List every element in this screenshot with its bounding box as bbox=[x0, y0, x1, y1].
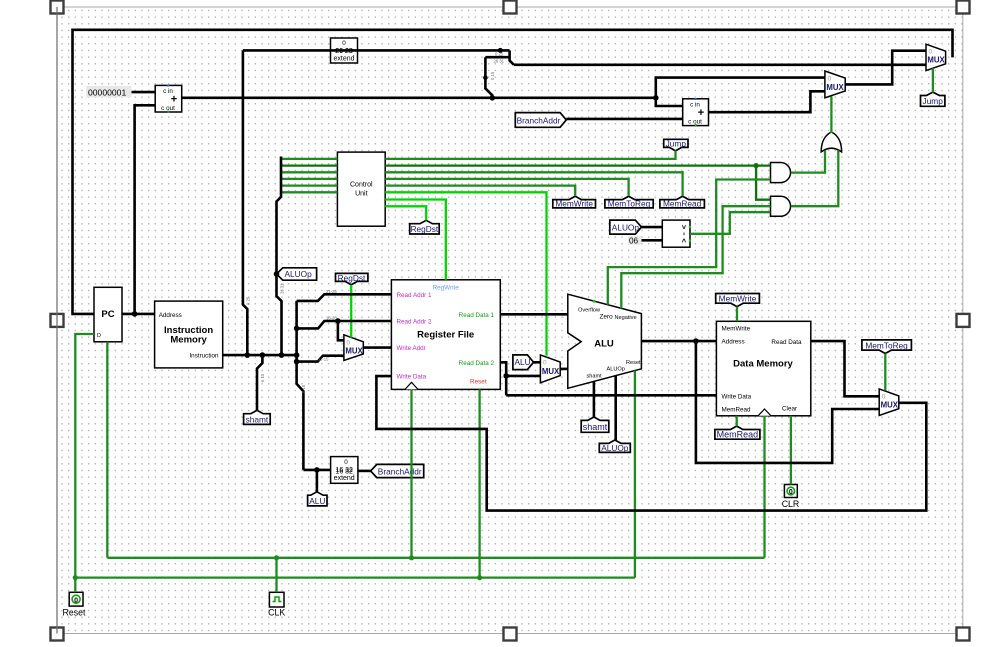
wire: Branch branch down to G2 input 1 bbox=[756, 166, 770, 200]
wire: PC out to instruction memory and A1 bbox=[122, 313, 155, 316]
svg-text:0: 0 bbox=[74, 597, 78, 604]
junction: ALUOp opcode tap bbox=[274, 271, 280, 277]
wire: control L6 (left of CU) bbox=[281, 191, 337, 193]
wire: G1 output to OR input 1 bbox=[791, 150, 825, 172]
svg-text:RegDst: RegDst bbox=[338, 273, 366, 283]
junction: splitter S1 node bbox=[498, 48, 503, 53]
wire: PC value riser to A1 bbox=[135, 105, 156, 314]
adder A1 (PC+1) bbox=[155, 85, 182, 113]
svg-text:MUX: MUX bbox=[826, 83, 844, 92]
junction: reset net at register file bbox=[477, 575, 482, 580]
wire: RegDst net to tunnel A bbox=[385, 206, 426, 220]
wire: M1 out up to M2 input 1 bbox=[845, 51, 926, 85]
svg-text:MUX: MUX bbox=[927, 56, 945, 65]
Reset button bbox=[63, 592, 87, 617]
wire: ALU result bypass loop bbox=[696, 341, 879, 463]
junction: immediate node bbox=[314, 467, 320, 473]
wire: Zero flag to G1 input 2 bbox=[608, 180, 771, 305]
wire: RegWrite net to register file bbox=[385, 200, 446, 280]
wire: read data 2 corner bbox=[500, 362, 506, 395]
wire: A2 sum to M1 input 2 bbox=[709, 91, 825, 112]
wire: read data 2 to M4 input 2 bbox=[506, 375, 540, 378]
wire: write back loop bbox=[376, 376, 926, 511]
wire: PC clock down to CLK net bbox=[106, 342, 108, 558]
wire: shamt bits drop bbox=[257, 355, 262, 410]
wire: comparator equal out to G2 input 3 bbox=[690, 212, 771, 234]
svg-text:26 31: 26 31 bbox=[494, 58, 505, 63]
adder A2 (branch address) bbox=[683, 98, 709, 126]
svg-text:ALUOp: ALUOp bbox=[285, 269, 313, 279]
tunnel Jump (top right, to M2 select) bbox=[921, 92, 945, 106]
tunnel RegDst A (from control unit) bbox=[410, 220, 440, 234]
svg-text:Overflow: Overflow bbox=[578, 308, 601, 314]
svg-text:Register File: Register File bbox=[417, 330, 474, 341]
wire: Negative flag to G2 input 2 bbox=[621, 206, 770, 308]
junction: CLK net at clock bbox=[274, 555, 279, 560]
svg-text:0: 0 bbox=[828, 76, 832, 83]
svg-text:extend: extend bbox=[333, 55, 354, 62]
wire: PC+1 upper bits to splitter bbox=[485, 57, 492, 98]
mux M3 (RegDst) bbox=[344, 335, 364, 361]
wire: ALUOp tunnel to comparator bbox=[642, 226, 663, 229]
wire: read data 1 to ALU input A bbox=[500, 313, 568, 316]
junction: splitter S2 node bbox=[483, 75, 488, 80]
svg-text:Zero: Zero bbox=[600, 313, 614, 320]
wire: G2 output to OR input 2 bbox=[791, 150, 839, 206]
svg-text:26 28: 26 28 bbox=[335, 48, 353, 55]
svg-text:ALUOp: ALUOp bbox=[601, 443, 629, 453]
mux M5 (MemToReg) bbox=[879, 389, 899, 416]
svg-text:ALUOp: ALUOp bbox=[607, 367, 625, 373]
svg-text:Write Data: Write Data bbox=[397, 374, 427, 381]
svg-text:16-20: 16-20 bbox=[326, 316, 337, 321]
svg-text:0: 0 bbox=[346, 340, 350, 347]
wire: new PC top border loop bbox=[73, 30, 953, 314]
constant 06 bbox=[628, 236, 642, 246]
selection handle top-left bbox=[51, 1, 64, 14]
Data Memory bbox=[716, 321, 810, 416]
svg-text:Jump: Jump bbox=[666, 139, 687, 149]
wire: MemToReg net to tunnel bbox=[385, 179, 628, 196]
wire: control L2 Branch (left of CU) bbox=[281, 164, 337, 166]
svg-text:0 15: 0 15 bbox=[301, 384, 306, 393]
tunnel ALUOp A (opcode source, tip left) bbox=[277, 268, 317, 280]
wire: opcode riser to splitter S2 bbox=[277, 157, 282, 356]
CLK clock input bbox=[268, 592, 285, 617]
svg-text:MemWrite: MemWrite bbox=[719, 293, 757, 303]
mux M4 (ALUSrc) bbox=[540, 355, 560, 383]
svg-text:0: 0 bbox=[543, 360, 547, 367]
svg-text:Jump: Jump bbox=[923, 96, 944, 106]
svg-text:Read Data 2: Read Data 2 bbox=[459, 360, 495, 367]
svg-text:0: 0 bbox=[789, 489, 793, 496]
svg-text:Read Addr 2: Read Addr 2 bbox=[397, 319, 433, 326]
wire: control L1 Jump (left of CU) bbox=[281, 158, 337, 160]
junction: instruction bus rs bbox=[294, 352, 300, 358]
svg-text:Control: Control bbox=[350, 182, 373, 189]
svg-text:MemRead: MemRead bbox=[663, 199, 702, 209]
svg-text:BranchAddr: BranchAddr bbox=[378, 466, 422, 476]
wire: Clear pin to CLR constant bbox=[790, 416, 792, 485]
marquee left edge (darker, over handles) bbox=[56, 7, 58, 634]
wire: register file clock to CLK net bbox=[410, 389, 412, 557]
svg-text:CLR: CLR bbox=[782, 499, 800, 509]
wire: rs rt rd riser column bbox=[297, 301, 304, 470]
wire: control L5 (left of CU) bbox=[281, 184, 337, 186]
wire: ALU result to data memory address bbox=[641, 340, 716, 343]
svg-text:ALU: ALU bbox=[309, 496, 325, 506]
junction: instruction bus opcode bbox=[279, 352, 285, 358]
wire: MemWrite tunnel B to data memory bbox=[736, 307, 738, 322]
svg-text:Negative: Negative bbox=[615, 315, 637, 321]
wire: read addr 2 branch bbox=[297, 321, 392, 328]
svg-text:Address: Address bbox=[722, 339, 745, 346]
wire: PC+1 into A2 bbox=[656, 98, 683, 106]
tunnel MemWrite B (above data memory) bbox=[716, 293, 760, 306]
wire: ALU tunnel B drop bbox=[316, 470, 319, 492]
wire: shamt pin drop bbox=[593, 381, 596, 417]
svg-text:=: = bbox=[680, 232, 686, 235]
selection handle top-right bbox=[957, 1, 970, 14]
svg-text:26 31: 26 31 bbox=[280, 283, 285, 294]
wire: write data line to data memory bbox=[506, 394, 716, 397]
wire: constant 06 to comparator bbox=[642, 239, 663, 242]
tunnel MemToReg B (to M5 select) bbox=[862, 340, 912, 354]
svg-text:Read Data 1: Read Data 1 bbox=[459, 312, 495, 319]
svg-text:0 15: 0 15 bbox=[490, 71, 495, 80]
junction: PC+1 to M1 and A2 bbox=[653, 95, 659, 101]
wire: read data out to M5 input 1 bbox=[811, 341, 879, 396]
svg-text:0 25: 0 25 bbox=[495, 52, 504, 57]
selection handle mid-right bbox=[957, 314, 970, 327]
svg-text:Address: Address bbox=[159, 312, 182, 319]
svg-text:Read Data: Read Data bbox=[771, 339, 802, 346]
svg-text:11-15: 11-15 bbox=[318, 356, 329, 361]
Register File bbox=[391, 280, 500, 390]
svg-text:21-25: 21-25 bbox=[326, 289, 337, 294]
junction: rt to M3 bbox=[335, 318, 341, 324]
wire: MemToReg tunnel B to M5 select bbox=[884, 354, 886, 391]
junction: read data 2 node bbox=[503, 373, 509, 379]
svg-text:Reset: Reset bbox=[626, 360, 641, 366]
Instruction Memory bbox=[155, 301, 223, 368]
svg-text:RegDst: RegDst bbox=[411, 224, 439, 234]
wire: rt to M3 input 1 bbox=[338, 321, 344, 340]
junction: rt node bbox=[294, 326, 300, 332]
svg-text:00000001: 00000001 bbox=[88, 87, 126, 97]
tunnel BranchAddr B (top, tip right) bbox=[515, 113, 566, 128]
svg-text:extend: extend bbox=[334, 475, 355, 482]
wire: rd bits to M3 input 2 bbox=[297, 356, 344, 362]
svg-text:Clear: Clear bbox=[782, 406, 797, 413]
wire: PC+1 result bus bbox=[182, 97, 656, 100]
svg-text:shamt: shamt bbox=[246, 414, 269, 424]
wire: control L4 (left of CU) bbox=[281, 178, 337, 180]
tunnel MemToReg (control row) bbox=[605, 196, 653, 208]
wire: ALU Reset pin down to reset net bbox=[634, 371, 636, 578]
tunnel MemRead B (under data memory) bbox=[715, 426, 760, 440]
wire: M3 out to write addr bbox=[363, 346, 391, 349]
svg-text:>: > bbox=[680, 225, 689, 230]
comparator (ALUOp = 06) bbox=[662, 220, 691, 247]
wire: jump address line through extender bbox=[243, 49, 510, 52]
tunnel shamt R (under ALU) bbox=[581, 417, 609, 432]
junction: PC+1 at splitter bbox=[490, 95, 496, 101]
tunnel RegDst B (to M3 select) bbox=[336, 273, 368, 285]
tunnel ALU B (bottom left) bbox=[308, 492, 327, 506]
svg-text:Reset: Reset bbox=[63, 608, 87, 618]
wire: MemRead pin to tunnel B bbox=[736, 416, 738, 427]
AND gate G1 (Branch AND Zero) bbox=[771, 163, 791, 183]
svg-text:RegWrite: RegWrite bbox=[433, 285, 460, 292]
svg-text:shamt: shamt bbox=[587, 374, 603, 380]
wire: constant to A1 input bbox=[132, 91, 156, 94]
svg-text:MemToReg: MemToReg bbox=[865, 340, 908, 350]
OR gate G3 bbox=[821, 132, 841, 152]
splitter S1 spine bbox=[510, 50, 514, 64]
junction: instruction bus jump bits bbox=[245, 352, 251, 358]
svg-text:MemToReg: MemToReg bbox=[608, 199, 651, 209]
selection handle top-center bbox=[504, 1, 517, 14]
svg-text:MemWrite: MemWrite bbox=[555, 199, 593, 209]
wire: PC+1 riser to M1 input 1 bbox=[656, 78, 825, 98]
junction: PC output node bbox=[132, 311, 138, 317]
selection handle mid-left bbox=[51, 314, 64, 327]
svg-text:0: 0 bbox=[344, 459, 348, 466]
svg-text:Reset: Reset bbox=[470, 379, 487, 386]
wire: control L3 (left of CU) bbox=[281, 171, 337, 173]
svg-text:0 25: 0 25 bbox=[246, 296, 251, 305]
svg-text:6 10: 6 10 bbox=[260, 373, 265, 382]
svg-text:MUX: MUX bbox=[345, 347, 363, 356]
bit extender 26->28 (jump shift) bbox=[331, 38, 358, 63]
svg-text:Write Data: Write Data bbox=[722, 394, 752, 401]
svg-text:shamt: shamt bbox=[583, 422, 608, 432]
svg-text:MemRead: MemRead bbox=[722, 407, 752, 414]
wire: instruction bus bbox=[223, 354, 297, 357]
tunnel Jump (near control unit) bbox=[664, 139, 688, 151]
tunnel ALUOp B (to comparator, tip right) bbox=[610, 220, 642, 234]
wire: M2 select to Jump tunnel bbox=[932, 68, 934, 92]
tunnel MemRead (control row) bbox=[660, 196, 705, 208]
wire: CLK component riser bbox=[275, 558, 277, 593]
svg-text:MemWrite: MemWrite bbox=[722, 326, 751, 333]
svg-text:Write Addr: Write Addr bbox=[397, 345, 426, 352]
junction: instruction bus shamt bbox=[260, 352, 266, 358]
wire: data memory clock to CLK net bbox=[763, 416, 765, 558]
svg-text:BranchAddr: BranchAddr bbox=[517, 115, 561, 125]
svg-text:0: 0 bbox=[929, 49, 933, 56]
junction: reset net at button bbox=[73, 575, 78, 580]
constant 00000001 bbox=[86, 86, 132, 98]
wire: Branch net to AND gates bbox=[385, 164, 770, 166]
svg-text:MemRead: MemRead bbox=[717, 430, 759, 440]
wire: BranchAddr tunnel to A2 bbox=[566, 118, 682, 121]
wire: reset net horizontal bbox=[75, 576, 635, 578]
wire: register file reset to reset net bbox=[478, 389, 480, 577]
svg-text:PC: PC bbox=[101, 309, 114, 320]
svg-text:06: 06 bbox=[629, 237, 639, 246]
splitter S1 branch 0-25 bbox=[485, 56, 509, 59]
svg-text:+: + bbox=[698, 107, 704, 119]
tunnel MemWrite (control row) bbox=[553, 196, 596, 208]
wire: MemWrite net to tunnel bbox=[385, 186, 575, 196]
wire: M4 out to ALU input B bbox=[560, 368, 568, 371]
selection handle bottom-right bbox=[957, 628, 970, 641]
wire: OR output to M1 select bbox=[830, 97, 832, 134]
selection handle bottom-left bbox=[51, 628, 64, 641]
AND gate G2 (Branch AND Negative AND cmp) bbox=[771, 196, 791, 216]
wire: Jump net to tunnel bbox=[385, 150, 675, 159]
CLR constant bbox=[782, 485, 800, 509]
svg-text:MUX: MUX bbox=[542, 367, 560, 376]
svg-text:Memory: Memory bbox=[170, 335, 207, 346]
junction: branch net split bbox=[754, 163, 759, 168]
svg-text:Read Addr 1: Read Addr 1 bbox=[397, 292, 433, 299]
svg-text:<: < bbox=[680, 238, 689, 243]
wire: CLK net horizontal bbox=[107, 557, 764, 559]
svg-text:+: + bbox=[171, 94, 177, 106]
mux M2 (jump select) bbox=[926, 44, 946, 70]
svg-text:CLK: CLK bbox=[268, 608, 285, 618]
tunnel shamt L (from instruction bits) bbox=[244, 410, 271, 424]
PC register bbox=[94, 287, 122, 342]
wire: immediate to extender and ALU tunnel bbox=[303, 469, 330, 472]
ALU bbox=[568, 294, 642, 388]
svg-text:D: D bbox=[97, 333, 101, 339]
svg-text:ALU: ALU bbox=[594, 339, 614, 350]
junction: ALU result node bbox=[693, 338, 699, 344]
wire: extender 2 out to BranchAddr tunnel bbox=[358, 470, 371, 473]
wire: jump target bus to M2 bbox=[514, 64, 926, 67]
svg-text:MUX: MUX bbox=[881, 401, 899, 410]
wire: PC reset stub bbox=[75, 334, 94, 592]
svg-text:0: 0 bbox=[342, 40, 346, 47]
tunnel BranchAddr A (bottom, tip left) bbox=[371, 464, 424, 477]
svg-text:0: 0 bbox=[882, 394, 886, 401]
svg-text:Instruction: Instruction bbox=[189, 353, 219, 360]
tunnel ALU A (result source, near M4) bbox=[513, 355, 534, 370]
wire: read addr 1 branch bbox=[297, 294, 392, 301]
svg-text:ALUOp: ALUOp bbox=[612, 223, 640, 233]
Control Unit bbox=[337, 152, 385, 226]
bit extender 16->32 (branch offset) bbox=[331, 457, 358, 484]
tunnel ALUOp C (under ALU) bbox=[599, 440, 630, 453]
wire: RegDst tunnel B to M3 select bbox=[350, 285, 352, 338]
svg-text:ALU: ALU bbox=[515, 357, 531, 367]
junction: rd node bbox=[294, 359, 300, 365]
wire: ALUSrc net to M4 select bbox=[385, 192, 546, 355]
junction: CLK net at register file bbox=[409, 555, 414, 560]
wire: jump upper bits riser bbox=[243, 50, 247, 355]
wire: MemRead net to tunnel bbox=[385, 172, 682, 196]
selection handle bottom-center bbox=[504, 628, 517, 641]
mux M1 (branch select) bbox=[825, 71, 845, 98]
svg-text:Unit: Unit bbox=[355, 191, 368, 198]
wire: ALUOp pin drop bbox=[614, 376, 617, 440]
svg-text:Data Memory: Data Memory bbox=[733, 359, 793, 370]
svg-text:16 32: 16 32 bbox=[335, 468, 353, 475]
wire: ALU tunnel A to M4 input 1 bbox=[534, 361, 541, 364]
